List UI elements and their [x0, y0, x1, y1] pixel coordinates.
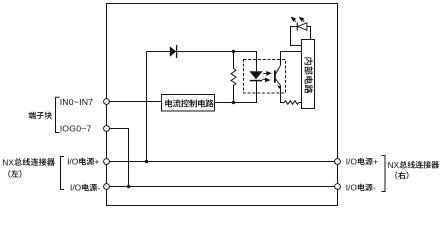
terminal I/O power + (right) [335, 159, 341, 165]
wire: IN0 input from terminal to current-control box [110, 101, 162, 103]
label: current control circuit [165, 99, 172, 107]
svg-text:I/O: I/O [67, 156, 79, 166]
label: (right) [395, 171, 397, 179]
svg-text:I/O: I/O [346, 182, 358, 192]
optocoupler U1 dashed outline [244, 60, 286, 94]
wire: I/O power - rail [110, 186, 335, 188]
wire: IOG terminal down to I/O power - rail [110, 129, 129, 187]
junction dot: resistor bottom on box output wire [232, 101, 235, 104]
internal circuit box U2 [302, 40, 315, 109]
bracket: terminal block rows [56, 97, 60, 132]
diode D1 on top branch [170, 46, 176, 56]
indicator LED D3 loop wires [291, 27, 311, 46]
svg-text:I/O: I/O [70, 183, 82, 193]
wire: current-control box output to optocoupler LED cathode [215, 81, 257, 103]
svg-text:-: - [97, 183, 100, 193]
svg-text:I/O: I/O [346, 156, 358, 166]
svg-text:IOG0~7: IOG0~7 [60, 124, 92, 134]
current control circuit box U3 [162, 95, 215, 112]
resistor R1 (vertical, parallel with optocoupler input) [231, 52, 236, 103]
resistor R2 (horizontal, emitter to internal circuit) [284, 101, 301, 104]
svg-text:IN0~IN7: IN0~IN7 [60, 97, 94, 107]
junction dot: resistor top on top branch [232, 50, 235, 53]
indicator LED D3 (hollow, pointing left) [298, 23, 307, 30]
svg-text:+: + [373, 156, 378, 166]
wire: I/O power + rail [110, 161, 335, 163]
label: internal circuit (vertical) [304, 57, 312, 64]
svg-text:-: - [373, 182, 376, 192]
outer module rectangle [107, 4, 338, 206]
bracket: right power terminals [382, 156, 386, 192]
junction dot: +V vertical on I/O power + rail [145, 160, 148, 163]
junction dot: IOG drop on I/O power - rail [127, 185, 130, 188]
wire: top branch with diode feeding LED anode [147, 52, 257, 72]
wire: vertical from I/O power + rail up to top branch [146, 52, 148, 162]
svg-text:NX: NX [2, 157, 14, 167]
terminal I/O power - (right) [335, 184, 341, 190]
LED light emission arrows [291, 17, 304, 22]
svg-text:NX: NX [388, 160, 400, 170]
terminal IOG0~7 [104, 126, 110, 132]
terminal I/O power - (left) [104, 184, 110, 190]
label: terminal block [28, 112, 35, 119]
light arrows from LED to phototransistor [262, 72, 271, 82]
terminal I/O power + (left) [104, 159, 110, 165]
phototransistor Q1 [274, 70, 276, 82]
svg-text:+: + [95, 156, 100, 166]
terminal IN0~IN7 [104, 99, 110, 105]
bracket: left power terminals [61, 157, 65, 190]
wire: emitter down to resistor R2 [281, 86, 285, 103]
optocoupler LED (emitting diode) [249, 71, 262, 79]
label: (left) [8, 170, 10, 178]
wire: collector to internal-circuit box [281, 52, 302, 66]
